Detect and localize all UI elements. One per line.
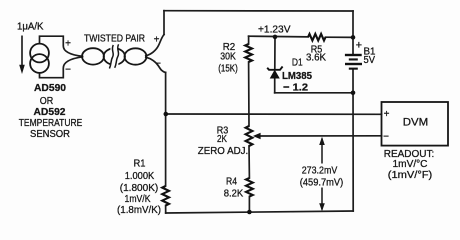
svg-text:TWISTED PAIR: TWISTED PAIR [84,33,145,44]
current source AD590 circle lower [30,54,49,73]
svg-text:−: − [65,65,71,76]
zener diode D1 cathode bar [267,67,282,70]
svg-text:+: + [154,35,160,46]
twisted pair break gap mask [110,47,118,67]
svg-text:−: − [383,131,389,142]
resistor R1 [162,186,169,206]
wire right vertical lower (battery - lead down to bottom rail) [352,70,354,211]
svg-text:2K: 2K [217,134,227,145]
wire R2 top corner lead [248,36,250,44]
svg-text:LM385: LM385 [282,70,312,82]
battery B1 long plate 1 [345,54,362,56]
svg-text:(1.800K): (1.800K) [120,183,159,194]
svg-text:D1: D1 [292,57,303,68]
svg-text:1.000K: 1.000K [125,171,155,182]
junction node +1.23V / D1 [273,35,278,40]
twisted pair loop 3 [125,48,147,64]
measurement arrow 273.2mV [319,137,325,212]
battery B1 short plate 2 [349,68,358,70]
zener diode D1 triangle [270,70,279,78]
svg-text:(15K): (15K) [218,63,238,74]
svg-text:5V: 5V [364,55,376,66]
measurement text background [298,164,346,188]
svg-text:+1.23V: +1.23V [258,25,291,36]
wire twisted pair right plus fan to top rail [146,35,164,56]
wire sensor top lead to twisted pair [40,36,83,56]
wire bottom rail [166,211,354,213]
svg-text:AD592: AD592 [34,106,66,118]
battery B1 long plate 2 [345,63,362,65]
svg-text:ZERO ADJ.: ZERO ADJ. [198,146,249,157]
junction node sensor-/R1/DVM+ [164,112,169,117]
svg-text:1mV/K: 1mV/K [125,194,151,205]
wire left vertical upper stub [163,11,165,35]
svg-text:3.6K: 3.6K [306,52,326,63]
junction node D1 anode / battery - [351,91,356,96]
wire left vertical lower (sensor minus / R1 branch) [165,73,167,187]
svg-text:1mV/°C: 1mV/°C [393,159,428,170]
svg-text:(459.7mV): (459.7mV) [300,178,344,189]
svg-text:TEMPERATURE: TEMPERATURE [19,118,83,129]
resistor R5 [308,34,326,41]
wire left vertical below R1 [165,206,167,214]
wire right vertical upper (battery + lead) [352,11,354,54]
junction node rail / battery + [351,35,356,40]
twisted pair loop 1 [82,48,104,64]
twisted pair break squiggle right [115,44,119,68]
svg-text:(1.8mV/K): (1.8mV/K) [117,205,161,216]
wire D1 anode to battery minus [275,92,353,94]
wire top rail [164,10,353,12]
svg-text:+: + [384,109,390,120]
resistor R2 [245,44,252,62]
svg-text:273.2mV: 273.2mV [302,166,338,177]
svg-text:R1: R1 [134,159,146,170]
svg-text:R4: R4 [226,176,237,187]
wire D1 cathode lead [274,37,276,69]
wire +1.23V rail left of R5 [249,35,308,38]
svg-text:AD590: AD590 [34,82,66,94]
current source AD590 circle upper [30,44,49,63]
svg-text:30K: 30K [220,51,236,62]
DVM box [382,102,449,146]
wire R4 to bottom rail lead [248,197,250,213]
wire R3 to R4 lead [248,146,250,178]
twisted pair loop 2 [104,48,125,64]
wire R2 to R3 lead [248,62,250,126]
wire +1.23V rail right of R5 [326,36,354,38]
svg-text:8.2K: 8.2K [224,189,244,200]
wire DVM plus line (sensor node to DVM) [166,113,382,115]
svg-text:−: − [155,59,161,70]
wire D1 anode lead [274,78,276,93]
svg-text:(1mV/°F): (1mV/°F) [388,170,433,181]
svg-text:DVM: DVM [403,116,429,128]
junction node R4 / bottom rail [247,210,252,215]
twisted pair break squiggle left [109,45,113,69]
svg-text:1μA/K: 1μA/K [17,22,44,33]
svg-text:SENSOR: SENSOR [30,129,70,140]
wire DVM minus line (R3 wiper to DVM) [256,135,382,137]
potentiometer R3 wiper arrowhead [253,133,261,140]
wire twisted pair right minus fan to lower vertical [146,57,166,72]
potentiometer R3 [246,126,253,146]
svg-text:− 1.2: − 1.2 [283,81,308,93]
current direction arrow 1uA/K [19,36,25,75]
svg-text:+: + [65,39,71,50]
wire sensor bottom lead to twisted pair [40,57,83,78]
battery B1 short plate 1 [349,58,358,60]
resistor R4 [246,178,253,197]
svg-text:+: + [356,39,362,51]
